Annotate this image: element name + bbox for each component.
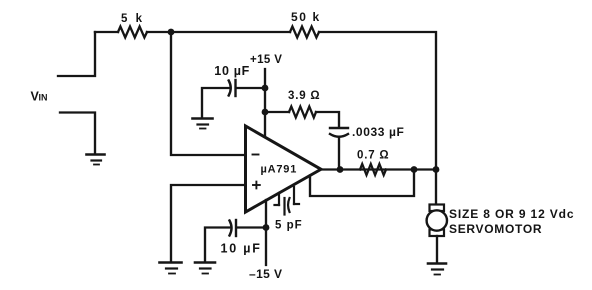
label 3.9 ohm [288, 90, 320, 102]
label SERVOMOTOR [449, 222, 542, 236]
node: 3.9 ohm branch junction [262, 109, 269, 116]
wire: summing node to 50k [171, 31, 290, 33]
wire: 10uF bottom left lead to ground [205, 228, 229, 262]
svg-text:–15 V: –15 V [249, 267, 282, 281]
resistor R3 3.9 ohm [289, 107, 316, 118]
label SIZE 8 OR 9 12 Vdc [449, 207, 574, 221]
svg-text:SERVOMOTOR: SERVOMOTOR [449, 222, 542, 236]
label 5 k [121, 13, 145, 25]
wire: 10uF top right lead [237, 87, 265, 89]
wire: inverting input [171, 32, 245, 155]
label 0.7 ohm [357, 150, 389, 162]
capacitor C1 10 µF (top) [229, 80, 236, 96]
wire: sense loop [310, 170, 414, 197]
resistor R4 0.7 ohm [360, 164, 386, 175]
label 5 pF [275, 220, 303, 232]
label 10 µF (bottom) [221, 242, 262, 256]
ground (top 10uF) [193, 119, 213, 129]
label -15 V [249, 267, 282, 281]
capacitor C4 10 µF (bottom) [230, 220, 237, 236]
ground (bottom 10uF) [195, 263, 215, 274]
svg-text:10 µF: 10 µF [214, 64, 250, 78]
wire: branch to 3.9 ohm [265, 111, 289, 113]
label 50 k [291, 10, 321, 24]
label µA791 [261, 164, 298, 176]
label VIN [31, 90, 48, 104]
resistor R1 5 k [118, 27, 147, 38]
wire: VIN lower lead [60, 113, 95, 154]
svg-text:IN: IN [39, 93, 48, 103]
ground (VIN source) [87, 155, 105, 165]
svg-text:µA791: µA791 [261, 164, 298, 176]
wire: non-inverting input [171, 185, 245, 261]
svg-text:5 pF: 5 pF [275, 220, 303, 232]
wire: 10uF top left lead to ground [202, 88, 229, 117]
svg-text:10 µF: 10 µF [221, 242, 262, 256]
wire: VIN upper lead [58, 32, 95, 76]
wire: to servomotor [435, 170, 437, 205]
svg-text:SIZE 8 OR 9 12 Vdc: SIZE 8 OR 9 12 Vdc [449, 207, 574, 221]
wire: input to 5k [95, 31, 118, 33]
label .0033 µF [352, 125, 404, 139]
motor M1 servomotor [427, 205, 447, 237]
ground (non-inverting input) [160, 263, 182, 274]
wire: 50k to output node [319, 32, 436, 166]
label +15 V [250, 54, 282, 66]
svg-text:+15 V: +15 V [250, 54, 282, 66]
wire: 3.9 ohm to .0033uF [316, 112, 339, 126]
ground (motor) [428, 264, 446, 275]
label 10 µF (top) [214, 64, 250, 78]
wire: -15V supply from op-amp [265, 200, 267, 265]
capacitor C2 .0033 µF [330, 128, 348, 137]
wire: 5k to summing node [147, 31, 171, 33]
resistor R2 50 k [290, 27, 319, 38]
svg-text:5 k: 5 k [121, 13, 145, 25]
svg-text:3.9 Ω: 3.9 Ω [288, 90, 320, 102]
wire: motor to ground [436, 236, 438, 262]
svg-text:.0033 µF: .0033 µF [352, 125, 404, 139]
svg-text:0.7 Ω: 0.7 Ω [357, 150, 389, 162]
node: output / motor junction [433, 166, 440, 173]
wire: output [321, 168, 436, 170]
label plus (non-inverting pin) [253, 182, 260, 189]
label minus (inverting pin) [253, 154, 259, 156]
op-amp U1 [246, 126, 322, 212]
node: output / cap junction [337, 166, 344, 173]
wire: 10uF bottom right lead [238, 226, 266, 228]
wire: .0033uF to output [338, 138, 340, 170]
node: output sense junction [411, 166, 418, 173]
node: -15V / 10uF junction [263, 224, 270, 231]
node: +15V / 10uF junction [262, 85, 269, 92]
capacitor C3 5 pF [275, 187, 300, 215]
node: summing junction [168, 29, 175, 36]
svg-text:50 k: 50 k [291, 10, 321, 24]
wire: +15V supply to op-amp [264, 69, 266, 137]
